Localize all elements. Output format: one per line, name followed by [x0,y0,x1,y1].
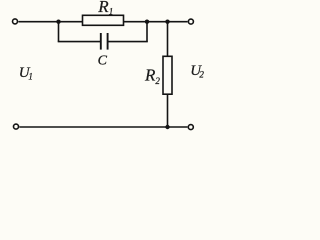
svg-text:C: C [98,54,108,69]
wire: capacitor branch left horizontal [58,41,100,43]
wire: bottom rail [19,126,187,128]
capacitor C right plate [107,33,109,50]
node C: junction of top wire and R2 branch [165,20,169,24]
capacitor C left plate [100,33,102,50]
resistor R1 [83,15,124,25]
node A: junction of input wire and capacitor branch [56,20,60,24]
wire: R1 right lead to output terminal [123,21,188,23]
wire: capacitor branch right horizontal [108,41,147,43]
wire: right vertical rise from capacitor branch to node B [146,22,148,42]
terminal: output top [188,19,193,24]
node D: junction of R2 branch and bottom rail [165,125,169,129]
terminal: input top [13,19,18,24]
wire: R2 bottom to bottom rail [167,94,169,127]
terminal: input bottom [14,124,19,129]
resistor R2 [163,56,172,94]
wire: vertical from node C down to R2 top [167,22,169,57]
terminal: output bottom [188,125,193,130]
node B: junction where capacitor branch rejoins top wire [145,20,149,24]
wire: top-left from input terminal to R1 left lead [18,21,83,23]
wire: left vertical drop from node A to capacitor branch [58,22,60,42]
